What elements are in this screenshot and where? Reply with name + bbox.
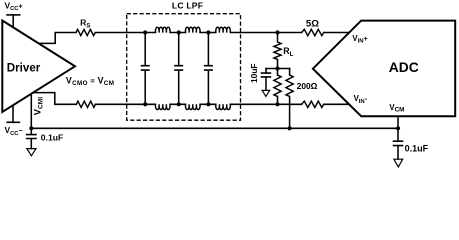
node dot top rail C3 [206,30,210,34]
svg-text:VCC+: VCC+ [5,0,23,12]
wire bottom rail inside LPF seg1 [170,103,185,105]
svg-text:0.1uF: 0.1uF [405,144,429,154]
wire bottom rail LPF to 5ohm [230,103,301,105]
inductor L6 bottom [216,104,231,109]
resistor Rs top [76,29,95,35]
inductor L2 top [185,27,200,32]
wire driver bottom output step [33,93,76,105]
ADC U2 body [313,21,455,117]
node dot top rail C1 [143,30,147,34]
resistor 5ohm top [302,29,324,35]
wire driver top output step [38,33,76,44]
ground under right 0.1uF [394,159,403,167]
svg-text:0.1uF: 0.1uF [41,132,63,142]
wire 10uF stub top [265,69,267,73]
wire RL center junction horizontal [266,68,290,70]
inductor L4 bottom [155,104,170,109]
wire RL lower stub through junction [277,59,279,75]
inductor L5 bottom [185,104,200,109]
inductor L1 top [155,27,170,32]
svg-text:5Ω: 5Ω [306,18,319,29]
ground under 10uF [262,90,270,96]
ground under left 0.1uF [27,149,36,156]
wire bottom rail inside LPF seg2 [200,103,216,105]
svg-text:200Ω: 200Ω [297,81,318,91]
VCC- terminal stub [12,105,14,122]
wire VCM common line [31,127,398,129]
VCC+ terminal bar [7,14,20,16]
resistor 200ohm [286,75,293,97]
wire bottom rail 5ohm to ADC VIN- [324,103,350,105]
wire 10uF stem to ground [265,78,267,91]
wire VCMI vertical [30,94,32,129]
svg-text:RS: RS [80,18,90,30]
svg-text:VCMO = VCM: VCMO = VCM [66,75,114,87]
capacitor 0.1uF right plates [393,141,404,145]
resistor Rs bottom [76,101,95,107]
capacitor 10uF plates [261,73,272,77]
node dot bottom rail RL [275,102,279,106]
svg-text:RL: RL [283,46,293,58]
node dot VCM pin on VCM line [396,126,400,130]
wire top rail LPF to 5ohm [230,32,301,34]
wire RL lower to bottom rail [277,97,279,105]
svg-text:Driver: Driver [7,61,41,74]
wire top rail 5ohm to ADC VIN+ [324,32,350,34]
svg-text:VCC−: VCC− [5,125,23,137]
capacitor 0.1uF left plates [26,135,37,139]
resistor 5ohm bottom [302,101,324,107]
capacitor C2 shunt [174,33,183,105]
LC LPF dashed box [127,14,241,121]
VCC- terminal bar [7,121,19,123]
wire left 0.1uF stem top [30,128,32,134]
svg-text:ADC: ADC [389,60,419,75]
node dot top rail C2 [177,30,181,34]
wire 200ohm to VCM line [289,97,291,129]
node dot bottom rail C1 [143,102,147,106]
resistor RL upper half [274,33,281,60]
wire top rail Rs to LPF [95,32,155,34]
capacitor C3 shunt [204,33,213,105]
driver amplifier U1 triangle [2,21,75,113]
wire VCM pin vertical [397,116,399,141]
resistor RL lower half [274,75,281,97]
svg-text:LC LPF: LC LPF [172,1,203,11]
capacitor C1 shunt [141,33,150,105]
node dot VCMI on VCM line [29,126,33,130]
wire left 0.1uF stem to ground [30,139,32,148]
wire top rail inside LPF seg2 [200,32,216,34]
svg-text:10uF: 10uF [249,63,259,83]
node dot top rail RL [275,30,279,34]
node dot RL center tap [275,66,279,70]
wire top rail inside LPF seg1 [170,32,185,34]
node dot bottom rail C3 [206,102,210,106]
VCC+ terminal stub [12,15,14,28]
wire 200ohm top stub [289,69,291,76]
wire bottom rail Rs to LPF [95,103,155,105]
wire right 0.1uF stem to ground [397,146,399,159]
node dot 200ohm on VCM line [288,126,292,130]
svg-text:VCMI: VCMI [33,97,45,115]
inductor L3 top [216,27,231,32]
node dot bottom rail C2 [177,102,181,106]
